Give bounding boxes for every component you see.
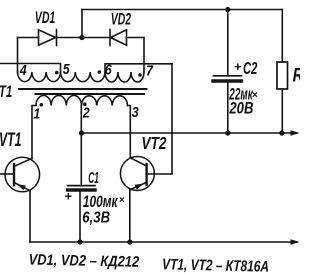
svg-text:C2: C2 (243, 60, 258, 79)
transformer T1 winding 4-5-6-7 (18, 72, 144, 82)
wire bottom output rail (30, 241, 297, 243)
winding dot terminal 2 (83, 102, 87, 106)
junction R / mid rail (279, 130, 284, 135)
svg-text:VD2: VD2 (111, 10, 131, 28)
svg-text:×: × (119, 195, 125, 206)
wire top rail (82, 9, 282, 11)
svg-text:VT1: VT1 (0, 131, 22, 151)
wire terminal 1 down to VT1 collector (32, 106, 36, 159)
resistor R (277, 62, 288, 89)
capacitor C1 (68, 186, 95, 190)
wire C2 top (227, 10, 229, 76)
transformer core line 2 (36, 93, 145, 95)
wire VD1 cathode to VD2 cathode (57, 37, 111, 39)
svg-text:C1: C1 (88, 168, 99, 187)
svg-text:4: 4 (19, 62, 27, 78)
wire C2 bottom (227, 83, 229, 133)
wire R top (281, 10, 283, 63)
diode VD2 (110, 30, 127, 46)
capacitor C2 (213, 76, 242, 81)
wire C1 top from center tap (80, 133, 82, 185)
svg-text:VT1, VT2 – КТ816А: VT1, VT2 – КТ816А (162, 255, 269, 274)
wire terminal 3 down to VT2 collector (128, 106, 131, 158)
arrow mid rail output (291, 130, 300, 136)
transistor VT1 (0, 157, 40, 192)
transformer core line 1 (19, 88, 147, 90)
junction VT2 emitter / bottom rail (127, 239, 132, 244)
wire input left to terminal 5 (0, 64, 61, 73)
svg-text:6,3В: 6,3В (82, 209, 110, 226)
svg-text:3: 3 (132, 104, 139, 120)
transistor VT2 (120, 157, 154, 191)
svg-text:1: 1 (33, 106, 40, 122)
wire VD1 anode lead (18, 37, 39, 39)
svg-text:T1: T1 (0, 83, 12, 102)
svg-text:VT2: VT2 (141, 134, 166, 153)
svg-text:7: 7 (146, 63, 154, 79)
wire VT2 emitter down (129, 190, 131, 242)
wire terminal 2 center tap down (80, 106, 82, 134)
svg-text:6: 6 (105, 61, 112, 77)
svg-text:20В: 20В (229, 99, 254, 118)
svg-text:+: + (64, 189, 72, 204)
svg-text:VD1, VD2 – КД212: VD1, VD2 – КД212 (28, 250, 139, 270)
wire mid output rail (82, 132, 298, 134)
winding dot terminal 1 (40, 103, 44, 107)
wire from diode junction up (81, 10, 83, 38)
wire down to winding terminal 7 (143, 38, 145, 73)
junction C2 / mid rail (225, 130, 230, 135)
wire R bottom (281, 89, 283, 133)
wire C1 bottom (79, 192, 81, 242)
arrow bottom rail output (291, 239, 300, 245)
diode VD1 (39, 30, 57, 46)
svg-text:VD1: VD1 (35, 7, 56, 26)
svg-text:+: + (234, 59, 242, 74)
junction top rail / C2 (225, 7, 230, 12)
wire terminal 4 up to VD1 (17, 38, 19, 73)
junction center tap / mid rail (79, 130, 84, 135)
winding dot terminal 6 (98, 70, 102, 74)
junction C1 / bottom rail (77, 239, 82, 244)
wire terminal 6 stub (105, 64, 172, 72)
svg-text:R: R (293, 64, 300, 86)
wire VD2 anode lead (127, 37, 145, 39)
wire down to VT2 base (147, 64, 172, 174)
junction diodes (79, 35, 84, 40)
transformer T1 winding 1-2-3 (36, 95, 128, 105)
svg-text:2: 2 (82, 105, 90, 121)
winding dot terminal 7 (138, 73, 142, 77)
svg-text:5: 5 (63, 61, 70, 77)
wire VT1 emitter down (29, 191, 31, 242)
winding dot terminal 5 (55, 71, 59, 75)
